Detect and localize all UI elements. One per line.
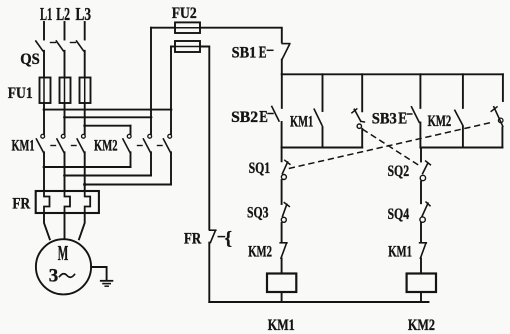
wire bottom bus [209,301,428,303]
wire SQ2 NC to mid bus [361,129,363,148]
QS linkage dashes [51,42,56,44]
switch QS pole 3 [77,41,84,51]
KM1 linkage dashes [51,145,56,147]
wire KM2 pole1 feed vertical [130,126,132,134]
wire output bus A [44,166,131,168]
limit switch SQ2 NC branch wire [361,74,363,111]
svg-text:FU1: FU1 [8,85,33,102]
wire motor lead 1 [44,213,50,239]
wire SQ1 NC to mid bus [501,128,503,148]
wire coil KM2 to bottom bus [420,292,422,302]
wire left branch upper [281,148,283,162]
svg-text:E: E [259,43,267,62]
contact KM2 aux branch wire [462,74,464,108]
wire KM2 pole3 feed vertical to FU2 lower [170,47,172,135]
wire FU2 lower left [171,46,175,48]
svg-text:SQ2: SQ2 [388,163,410,180]
wire KM2 pole2 feed vertical to FU2 upper [150,28,152,134]
node L3 tap [83,124,86,127]
svg-text:3: 3 [49,267,59,287]
wire SQ4 to KM1 NC [420,223,422,242]
wire right branch upper [420,148,422,162]
limit switch SQ1 NC branch wire [502,74,504,101]
contact KM1 aux (NO) [314,109,322,125]
fuse FU1 pole 2 [60,78,71,104]
contactor KM1 pole 2 [61,134,65,138]
wire L1 QS to KM1 [43,51,45,134]
contactor KM1 pole 1 [41,134,45,138]
wire KM2 NC to coil [281,259,283,274]
contact KM1 interlock (NC) [420,242,427,244]
pushbutton SB2 branch wire [281,74,283,108]
FR heater 1 [44,191,50,213]
wire mid bus right [420,147,502,149]
contact KM1 aux branch wire [322,74,324,111]
wire KM1 NC to coil [420,259,422,274]
wire KM2 pole2 out vertical [150,152,152,175]
fuse FU1 pole 1 [40,78,51,104]
wire KM1 pole3 out [84,152,86,191]
svg-text:{: { [225,229,233,250]
contact KM2 interlock (NC) [280,242,287,244]
svg-text:SQ4: SQ4 [388,206,410,223]
node pole2 feed [150,116,153,119]
node C junction [83,183,86,186]
dashed link SQ2 [363,130,418,165]
FR heater 3 [85,191,91,213]
pushbutton SB3 branch wire [419,74,421,108]
svg-text:SB3: SB3 [372,111,397,128]
limit switch SQ2 (NO) [423,163,428,174]
svg-text:KM2: KM2 [248,244,272,261]
wire KM2 aux to mid bus [462,127,464,148]
svg-text:KM1: KM1 [290,114,313,131]
svg-text:E: E [398,109,407,128]
wire FR to bottom bus [208,243,210,302]
wire L3 top [84,22,86,40]
coil KM1 [267,274,296,293]
wire motor lead 2 [64,213,66,239]
wire motor to ground [91,267,107,280]
limit switch SQ2 NC contact [354,109,361,121]
wire L3 QS to KM1 [84,51,86,134]
wire SQ3 to KM2 NC [281,223,283,242]
wire FU2 upper right to SB1 [200,28,282,43]
wire motor lead 3 [79,213,85,239]
svg-text:FR: FR [184,231,202,248]
svg-text:KM2: KM2 [94,138,118,155]
svg-text:SB1: SB1 [232,45,257,62]
wire KM2 pole1 out vertical [130,152,132,167]
coil KM2 [407,274,436,293]
contactor KM1 pole 3 [82,134,86,138]
contactor KM2 pole 2 [148,134,152,138]
svg-text:KM2: KM2 [428,113,452,130]
limit switch SQ4 (NO) [422,203,428,216]
switch QS pole 1 [36,41,43,51]
wire L1 top [43,22,45,40]
ground symbol [101,280,113,282]
wire coil KM1 to bottom bus [281,292,283,302]
FR actuator dash [218,236,224,238]
wire SB3 to mid bus [419,123,421,148]
node A junctions [43,166,46,169]
svg-text:L1: L1 [40,4,52,24]
svg-text:SQ1: SQ1 [249,160,271,177]
contact KM2 aux (NO) [455,110,463,125]
svg-text:E: E [259,107,268,126]
wire SB2 to mid bus [281,122,283,148]
svg-text:KM1: KM1 [268,317,295,334]
svg-text:KM2: KM2 [408,317,435,334]
svg-text:QS: QS [20,51,40,68]
svg-text:SQ3: SQ3 [247,205,269,222]
FR heater 2 [65,191,71,213]
limit switch SQ1 (NO) [282,162,287,174]
wire SQ1 to SQ3 [281,180,283,204]
svg-text:M: M [58,241,69,265]
wire KM1 pole1 out [43,152,45,191]
fuse FU2 upper [175,22,200,33]
wire tap L2 to KM2 pole2 and FU2 upper [65,116,152,118]
wire L2 QS to KM1 [64,51,66,134]
svg-text:L2: L2 [56,4,70,24]
KM2 linkage dashes [138,145,143,147]
SB1 actuator dash [267,49,273,51]
svg-text:KM1: KM1 [12,138,35,155]
fuse FU1 pole 3 [80,78,91,104]
wire output bus C [85,184,171,186]
node pole3 feed [170,108,173,111]
wire tap L3 to KM2 pole1 [85,125,131,127]
switch QS pole 2 [56,41,63,51]
limit switch SQ1 NC contact [494,107,503,127]
wire output bus B [65,175,152,177]
pushbutton SB1 (NC) [282,43,290,45]
fuse FU2 lower [175,41,200,52]
node L1 tap [43,108,46,111]
wire KM1 aux to mid bus [322,127,324,148]
contact FR (NC) [210,229,216,231]
wire FU2 lower right down [200,47,209,230]
wire L2 top [64,22,66,40]
wire mid bus left [282,147,363,149]
pushbutton SB3 (NO) [412,107,420,123]
contactor KM2 pole 3 [168,134,172,138]
svg-text:KM1: KM1 [388,244,412,261]
limit switch SQ3 (NO) [283,204,287,216]
svg-text:FU2: FU2 [172,5,197,22]
node B junctions [63,174,66,177]
node L2 tap [63,116,66,119]
svg-text:SB2: SB2 [231,109,258,126]
pushbutton SB2 (NO) [272,107,279,122]
wire KM2 pole3 out vertical [170,152,172,184]
dashed link SQ1 [290,123,492,169]
thermal relay FR box [36,191,99,213]
wire KM1 pole2 out [64,152,66,191]
wire top bus [282,73,503,75]
motor M circle [36,239,91,294]
wire SB1 to top bus [281,60,283,75]
svg-text:FR: FR [12,196,30,213]
svg-text:L3: L3 [76,4,92,24]
contactor KM2 pole 1 [127,134,131,138]
wire SQ2 to SQ4 [420,182,422,204]
wire FU2 upper left [151,27,175,29]
wire tap L1 to KM2 pole3 and FU2 lower [44,109,171,111]
